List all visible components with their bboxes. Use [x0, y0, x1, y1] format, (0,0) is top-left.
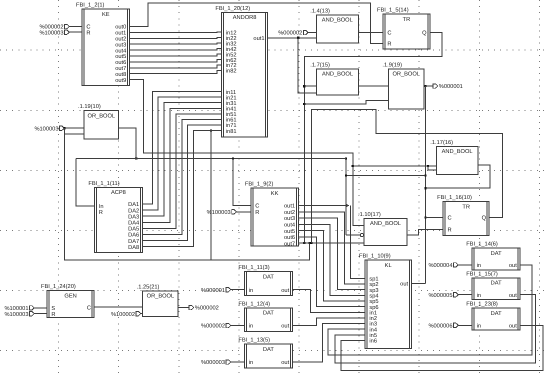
svg-text:FBI_1_11(3): FBI_1_11(3): [238, 264, 269, 271]
svg-text:FBI_1_13(5): FBI_1_13(5): [238, 337, 270, 344]
svg-text:out: out: [400, 282, 408, 288]
svg-text:FBI_1_23(8): FBI_1_23(8): [466, 301, 498, 308]
svg-text:DAT: DAT: [491, 281, 502, 287]
svg-text:C: C: [255, 204, 259, 210]
svg-text:.1.7(15): .1.7(15): [310, 61, 330, 68]
svg-text:TR: TR: [462, 204, 470, 210]
svg-text:out: out: [509, 293, 517, 299]
svg-text:FBI_1_12(4): FBI_1_12(4): [238, 300, 270, 307]
svg-text:DAT: DAT: [491, 251, 502, 257]
svg-text:FBI_1_10(9): FBI_1_10(9): [359, 253, 391, 260]
svg-text:out: out: [509, 263, 517, 269]
svg-text:%100003: %100003: [207, 210, 231, 216]
svg-text:%000004: %000004: [428, 263, 452, 269]
svg-text:DA1: DA1: [128, 202, 139, 208]
svg-text:%000002: %000002: [278, 31, 302, 37]
svg-text:R: R: [255, 210, 259, 216]
svg-text:FBI_1_20(12): FBI_1_20(12): [215, 5, 250, 12]
svg-text:Q: Q: [482, 216, 487, 222]
svg-text:out3: out3: [284, 216, 295, 222]
svg-text:DAT: DAT: [263, 347, 274, 353]
svg-text:OR_BOOL: OR_BOOL: [147, 294, 175, 300]
svg-text:DA2: DA2: [128, 208, 139, 214]
svg-text:in: in: [477, 292, 481, 299]
svg-text:FBI_1_1(11): FBI_1_1(11): [88, 180, 119, 187]
svg-text:ANDOR8: ANDOR8: [233, 15, 257, 21]
svg-text:out7: out7: [284, 241, 295, 247]
svg-text:%100003: %100003: [39, 30, 63, 36]
svg-text:AND_BOOL: AND_BOOL: [322, 72, 353, 78]
svg-text:out2: out2: [284, 210, 295, 216]
svg-text:DAT: DAT: [263, 311, 274, 317]
svg-text:%000003: %000003: [201, 360, 225, 366]
svg-text:in81: in81: [226, 128, 237, 135]
svg-text:in: in: [249, 323, 253, 330]
svg-text:.1.25(21): .1.25(21): [137, 283, 160, 290]
svg-text:DAT: DAT: [491, 311, 502, 317]
svg-text:DA5: DA5: [128, 227, 139, 233]
svg-text:R: R: [51, 312, 55, 318]
svg-text:DA8: DA8: [128, 245, 139, 251]
svg-text:KL: KL: [385, 263, 392, 269]
svg-text:out: out: [281, 288, 289, 294]
svg-text:R: R: [387, 42, 391, 48]
svg-text:Q: Q: [422, 31, 427, 37]
svg-text:%100003: %100003: [34, 126, 58, 132]
svg-text:DAT: DAT: [263, 274, 274, 280]
svg-text:GEN: GEN: [64, 293, 76, 299]
svg-text:DA4: DA4: [128, 221, 139, 227]
svg-text:AND_BOOL: AND_BOOL: [322, 18, 353, 24]
svg-text:in: in: [249, 359, 253, 366]
svg-text:DA3: DA3: [128, 214, 139, 220]
svg-text:C: C: [448, 216, 452, 222]
svg-text:OR_BOOL: OR_BOOL: [392, 72, 420, 78]
svg-text:ACP8: ACP8: [111, 190, 126, 196]
svg-text:R: R: [86, 30, 90, 36]
svg-text:out4: out4: [284, 223, 295, 229]
svg-text:%100002: %100002: [111, 312, 135, 318]
svg-text:AND_BOOL: AND_BOOL: [370, 221, 401, 227]
svg-text:out: out: [509, 324, 517, 330]
svg-text:%000002: %000002: [201, 324, 225, 330]
svg-text:DA7: DA7: [128, 239, 139, 245]
svg-text:%000006: %000006: [428, 324, 452, 330]
svg-text:.1.10(17): .1.10(17): [358, 211, 381, 218]
svg-text:AND_BOOL: AND_BOOL: [442, 149, 473, 155]
svg-text:TR: TR: [403, 17, 411, 23]
svg-text:out: out: [281, 360, 289, 366]
svg-text:in: in: [477, 262, 481, 269]
svg-text:%100003: %100003: [4, 312, 28, 318]
svg-text:out5: out5: [284, 229, 295, 235]
svg-text:in: in: [477, 323, 481, 330]
svg-text:.1.19(10): .1.19(10): [78, 103, 101, 110]
svg-text:FBI_1_14(6): FBI_1_14(6): [466, 241, 498, 248]
svg-text:OR_BOOL: OR_BOOL: [88, 113, 116, 119]
svg-text:R: R: [448, 228, 452, 234]
svg-text:C: C: [87, 305, 91, 311]
svg-text:DA6: DA6: [128, 233, 139, 239]
svg-text:%000002: %000002: [195, 306, 219, 312]
svg-text:%000005: %000005: [428, 293, 452, 299]
svg-text:C: C: [387, 30, 391, 36]
svg-text:out9: out9: [115, 78, 126, 84]
svg-text:.1.9(19): .1.9(19): [382, 61, 402, 68]
svg-text:KK: KK: [271, 191, 279, 197]
svg-text:out1: out1: [284, 204, 295, 210]
svg-text:FBI_1_5(14): FBI_1_5(14): [377, 7, 409, 14]
svg-text:.1.17(16): .1.17(16): [430, 139, 453, 146]
svg-text:FBI_1_9(2): FBI_1_9(2): [245, 181, 274, 188]
svg-text:KE: KE: [102, 12, 110, 18]
svg-text:out1: out1: [253, 36, 264, 42]
svg-text:R: R: [99, 210, 103, 216]
svg-text:in6: in6: [369, 338, 377, 345]
svg-text:FBI_1_24(20): FBI_1_24(20): [41, 283, 76, 290]
svg-text:.1.4(13): .1.4(13): [310, 7, 330, 14]
svg-text:%000001: %000001: [201, 288, 225, 294]
svg-text:FBI_1_15(7): FBI_1_15(7): [466, 270, 498, 277]
svg-text:FBI_1_2(1): FBI_1_2(1): [76, 2, 105, 9]
svg-text:out: out: [281, 324, 289, 330]
svg-text:in82: in82: [226, 68, 237, 75]
svg-text:FBI_1_16(10): FBI_1_16(10): [437, 194, 472, 201]
svg-text:out6: out6: [284, 235, 295, 241]
svg-text:%000001: %000001: [439, 84, 463, 90]
svg-text:in: in: [249, 287, 253, 294]
